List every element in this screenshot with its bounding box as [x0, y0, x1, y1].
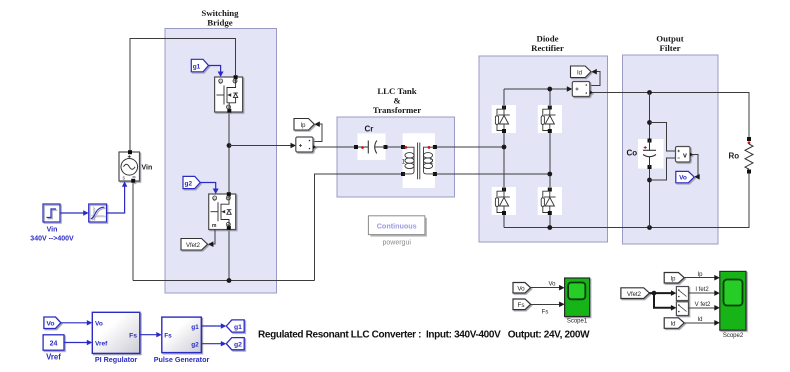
- step source Vin 340V->400V: [43, 204, 60, 222]
- diode D2 top-right: [538, 105, 562, 133]
- saturation block: [89, 204, 107, 222]
- diode D3 bottom-left: [492, 187, 516, 215]
- scope Scope2: [720, 271, 746, 330]
- wire secondary top to rectifier left leg: [435, 146, 504, 148]
- wire Vo tag to PI regulator: [61, 322, 90, 324]
- svg-text:Regulated Resonant LLC Convert: Regulated Resonant LLC Converter : Input…: [258, 330, 590, 341]
- svg-text:Vo: Vo: [95, 321, 103, 328]
- wire current sensor to Cr: [313, 146, 356, 148]
- goto tag Ip: [294, 119, 314, 131]
- node Co top tap: [647, 120, 652, 125]
- wire PI regulator Fs to pulse generator: [140, 334, 159, 336]
- svg-text:Pulse Generator: Pulse Generator: [154, 355, 210, 364]
- source Vin controlled voltage source: [119, 150, 140, 183]
- wire rectifier bottom rail to load: [504, 172, 749, 228]
- capacitor Co: [638, 139, 664, 170]
- svg-text:g1: g1: [191, 324, 199, 331]
- node Co bottom tap: [647, 178, 652, 183]
- wire pulse generator g2 to tag: [201, 343, 223, 345]
- scope Scope1: [565, 278, 590, 317]
- region Diode Rectifier: [479, 56, 608, 242]
- node rectifier top right leg: [547, 87, 552, 92]
- svg-text:Continuous: Continuous: [377, 222, 417, 231]
- svg-text:g2: g2: [191, 342, 199, 349]
- svg-text:24: 24: [50, 340, 58, 347]
- node bottom rail junction: [227, 278, 232, 283]
- voltmeter v: [676, 147, 694, 163]
- wire Q2 source to bottom rail: [228, 230, 230, 281]
- region Output Filter: [623, 55, 719, 244]
- wire g2 tag to Q2 gate: [200, 183, 216, 191]
- wire selector to scope2 I fet2: [689, 292, 717, 294]
- title Diode Rectifier: [531, 34, 564, 53]
- wire transformer primary bottom return to bottom rail: [315, 174, 403, 281]
- from tag Vo scope: [513, 283, 531, 294]
- constant Vref 24: [43, 335, 64, 350]
- svg-text:Ip: Ip: [697, 272, 703, 278]
- wire Id sensor to Id tag: [590, 72, 600, 86]
- svg-text:Rectifier: Rectifier: [531, 43, 564, 53]
- svg-text:Id: Id: [577, 70, 582, 76]
- wire top rail Vin+ to Q1 drain: [130, 39, 236, 153]
- wire Vref to PI regulator: [64, 342, 89, 344]
- svg-text:Fs: Fs: [518, 302, 525, 309]
- svg-text:Transformer: Transformer: [373, 105, 421, 115]
- wire Cr to transformer primary top: [386, 146, 404, 148]
- svg-text:Fs: Fs: [542, 310, 549, 316]
- svg-text:Vfet2: Vfet2: [627, 292, 642, 298]
- node top rail Co branch: [647, 90, 652, 95]
- svg-text:S: S: [227, 105, 230, 110]
- node rectifier right leg input: [547, 172, 552, 177]
- PI Regulator block U1: [92, 312, 140, 353]
- node bottom rail Co branch: [647, 225, 652, 230]
- wire Co branch: [649, 93, 651, 228]
- current sensor Id: [572, 82, 593, 97]
- goto tag Vfet2: [181, 239, 208, 251]
- svg-text:s: s: [227, 222, 229, 227]
- svg-text:Vref: Vref: [46, 352, 61, 361]
- svg-text:Vin: Vin: [142, 165, 153, 172]
- svg-text:Id: Id: [697, 317, 702, 323]
- diode D4 bottom-right: [538, 187, 562, 215]
- wire Q1 source to Q2 drain: [228, 112, 230, 194]
- svg-text:Bridge: Bridge: [207, 17, 233, 27]
- wire selector to scope2 V fet2: [689, 307, 717, 309]
- svg-text:g2: g2: [234, 342, 242, 349]
- selector block I fet2: [676, 287, 688, 301]
- wire Ip measurement to Ip tag: [313, 124, 322, 141]
- wire Q2 m port to Vfet2 tag: [211, 230, 215, 245]
- wire Id sensor output top rail to Ro: [590, 93, 749, 140]
- wire midpoint to current sensor Ip: [229, 145, 293, 147]
- svg-text:340V -->400V: 340V -->400V: [30, 236, 74, 243]
- title Switching Bridge: [201, 8, 239, 27]
- wire step to saturation: [60, 212, 86, 214]
- wire secondary bottom to rectifier right leg: [435, 173, 550, 175]
- goto tag Vo output: [676, 171, 694, 182]
- svg-text:&: &: [393, 96, 400, 106]
- svg-text:Vo: Vo: [679, 175, 687, 182]
- svg-text:Scope2: Scope2: [723, 333, 744, 339]
- from tag Id scope: [664, 318, 684, 329]
- wire rectifier top rail to Id sensor: [504, 88, 569, 90]
- title LLC Tank & Transformer: [373, 86, 421, 115]
- wire Id tag to scope2: [684, 322, 717, 324]
- from tag Vfet2 scope: [621, 288, 650, 299]
- svg-text:powergui: powergui: [382, 240, 411, 247]
- svg-text:Vo: Vo: [548, 282, 556, 288]
- wire Ip tag to scope2: [684, 277, 717, 279]
- svg-text:Ip: Ip: [300, 123, 306, 129]
- node bottom rail right leg: [547, 225, 552, 230]
- region LLC Tank: [337, 117, 455, 197]
- svg-text:Ip: Ip: [670, 276, 676, 282]
- wire Vfet2 vector to selectors: [650, 293, 674, 308]
- node rectifier left leg input: [502, 145, 507, 150]
- pulse generator block U2: [162, 317, 202, 353]
- from tag Vo control: [44, 317, 61, 329]
- svg-text:Co: Co: [627, 149, 638, 158]
- svg-text:Fs: Fs: [129, 332, 137, 339]
- wire rectifier left leg: [503, 89, 505, 228]
- wire pulse generator g1 to tag: [201, 325, 223, 327]
- svg-text:Filter: Filter: [660, 43, 681, 53]
- powergui block: [368, 216, 427, 237]
- wire g1 tag to Q1 gate: [209, 66, 221, 74]
- svg-text:g2: g2: [185, 180, 193, 187]
- goto tag Id: [571, 66, 592, 78]
- svg-text:Vfet2: Vfet2: [186, 243, 201, 249]
- from tag Ip scope: [664, 273, 684, 284]
- svg-text:Id: Id: [670, 322, 675, 328]
- wire bottom rail: [133, 280, 315, 282]
- title Output Filter: [656, 34, 683, 53]
- goto tag g2: [226, 338, 244, 350]
- wire voltmeter to Vo goto tag: [690, 155, 698, 177]
- svg-text:I fet2: I fet2: [695, 287, 709, 293]
- wire Vo tag to scope1: [531, 287, 562, 289]
- svg-text:D: D: [234, 79, 237, 84]
- svg-text:Fs: Fs: [164, 333, 172, 340]
- wire Fs tag to scope1: [531, 303, 562, 305]
- transformer T1: [401, 133, 437, 188]
- goto tag g1: [226, 320, 244, 332]
- from tag Fs scope: [513, 299, 531, 310]
- current sensor Ip: [296, 137, 317, 152]
- wire voltmeter - lead: [650, 158, 676, 180]
- node midpoint junction: [227, 143, 232, 148]
- svg-text:Cr: Cr: [365, 124, 374, 133]
- svg-text:Ro: Ro: [729, 152, 740, 161]
- svg-text:g1: g1: [193, 63, 201, 70]
- svg-text:Vo: Vo: [46, 321, 54, 328]
- transistor Q2 MOSFET lower: [209, 192, 236, 230]
- selector block V fet2: [676, 302, 688, 316]
- svg-text:V fet2: V fet2: [695, 302, 711, 308]
- wire Vin- down to bottom rail: [132, 181, 134, 281]
- svg-text:Vin: Vin: [47, 227, 58, 234]
- svg-text:v: v: [683, 153, 687, 160]
- from tag g2: [183, 176, 200, 188]
- wire saturation to Vin source s input: [107, 185, 125, 214]
- svg-text:Vref: Vref: [95, 340, 108, 347]
- svg-text:Vo: Vo: [517, 285, 525, 292]
- wire rectifier right leg: [549, 89, 551, 228]
- resistor Ro: [745, 137, 753, 174]
- from tag g1: [191, 59, 208, 72]
- svg-text:g1: g1: [234, 324, 242, 331]
- svg-text:PI Regulator: PI Regulator: [95, 355, 138, 364]
- svg-text:m: m: [212, 223, 217, 229]
- wire voltmeter + lead: [650, 123, 676, 152]
- svg-text:D: D: [227, 196, 230, 201]
- transistor Q1 MOSFET upper: [215, 75, 243, 113]
- capacitor Cr: [354, 134, 388, 161]
- svg-text:Scope1: Scope1: [567, 319, 588, 325]
- region Switching Bridge: [165, 29, 277, 294]
- diode D1 top-left: [492, 105, 516, 215]
